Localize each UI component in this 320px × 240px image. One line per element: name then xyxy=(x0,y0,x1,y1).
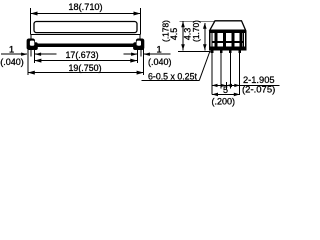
svg-text:17(.673): 17(.673) xyxy=(65,50,98,60)
svg-text:(.040): (.040) xyxy=(148,57,172,67)
svg-text:4.5: 4.5 xyxy=(169,28,179,41)
svg-text:(.200): (.200) xyxy=(212,96,236,106)
svg-text:19(.750): 19(.750) xyxy=(68,63,101,73)
svg-text:(.040): (.040) xyxy=(0,57,24,67)
svg-text:18(.710): 18(.710) xyxy=(68,2,102,12)
svg-text:5: 5 xyxy=(223,85,228,95)
svg-text:(1.70): (1.70) xyxy=(191,20,201,42)
svg-text:(2-.075): (2-.075) xyxy=(242,85,275,96)
